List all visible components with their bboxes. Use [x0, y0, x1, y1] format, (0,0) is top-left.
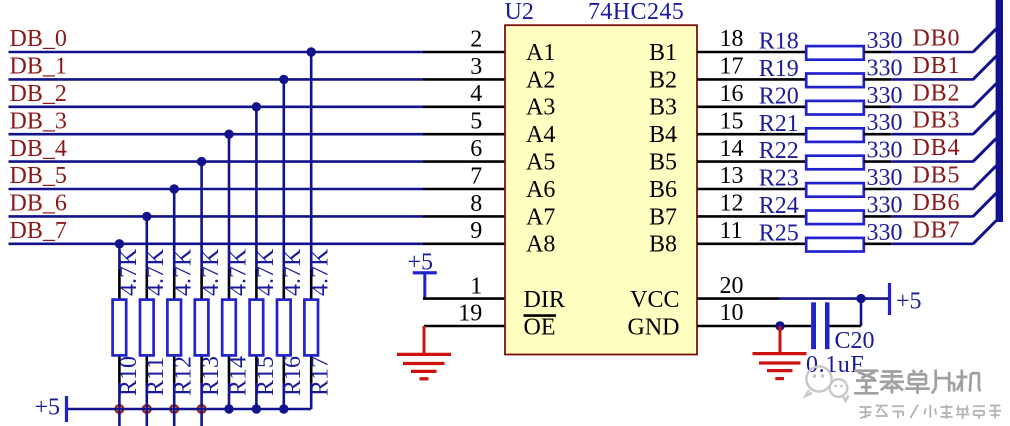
svg-text:330: 330 [867, 138, 903, 164]
svg-text:DB_1: DB_1 [10, 54, 67, 80]
svg-text:4.7K: 4.7K [253, 248, 279, 296]
svg-text:C20: C20 [835, 328, 875, 354]
svg-text:A4: A4 [526, 122, 555, 148]
svg-text:74HC245: 74HC245 [588, 0, 684, 25]
svg-text:B2: B2 [649, 67, 677, 93]
svg-text:DB_5: DB_5 [10, 163, 67, 189]
svg-text:R24: R24 [759, 193, 799, 219]
svg-text:330: 330 [867, 192, 903, 218]
svg-text:A7: A7 [526, 204, 555, 230]
svg-text:4.7K: 4.7K [143, 248, 169, 296]
svg-text:R10: R10 [116, 356, 142, 396]
svg-text:DB_0: DB_0 [10, 26, 67, 52]
svg-text:GND: GND [628, 315, 680, 341]
svg-text:330: 330 [867, 83, 903, 109]
svg-text:B7: B7 [649, 204, 677, 230]
svg-text:R25: R25 [759, 220, 799, 246]
svg-text:DB5: DB5 [913, 163, 961, 189]
svg-text:R13: R13 [198, 356, 224, 396]
svg-text:5: 5 [470, 109, 482, 135]
svg-text:DB_3: DB_3 [10, 108, 67, 134]
svg-text:R15: R15 [253, 356, 279, 396]
svg-text:R20: R20 [759, 83, 799, 109]
svg-text:19: 19 [458, 301, 482, 327]
svg-text:10: 10 [720, 300, 744, 326]
svg-text:4.7K: 4.7K [171, 248, 197, 296]
svg-text:B8: B8 [649, 232, 677, 258]
svg-text:15: 15 [720, 108, 744, 134]
svg-text:VCC: VCC [630, 287, 679, 313]
svg-text:330: 330 [867, 110, 903, 136]
svg-text:DB_4: DB_4 [10, 136, 67, 162]
svg-text:B6: B6 [649, 177, 677, 203]
svg-text:R14: R14 [225, 356, 251, 396]
svg-text:1: 1 [470, 273, 482, 299]
svg-text:DB_6: DB_6 [10, 191, 67, 217]
svg-text:DB7: DB7 [913, 217, 961, 243]
svg-text:DIR: DIR [524, 287, 565, 313]
svg-text:DB4: DB4 [913, 135, 961, 161]
svg-text:R17: R17 [308, 356, 334, 396]
svg-text:12: 12 [720, 191, 744, 217]
svg-text:R22: R22 [759, 138, 799, 164]
svg-text:7: 7 [470, 163, 482, 189]
svg-text:8: 8 [470, 191, 482, 217]
svg-text:11: 11 [720, 218, 743, 244]
svg-text:20: 20 [720, 273, 744, 299]
svg-text:18: 18 [720, 26, 744, 52]
svg-text:R18: R18 [759, 29, 799, 55]
svg-text:A6: A6 [526, 177, 555, 203]
svg-text:330: 330 [867, 165, 903, 191]
svg-text:B1: B1 [649, 40, 677, 66]
svg-text:R11: R11 [143, 357, 169, 396]
svg-text:B4: B4 [649, 122, 677, 148]
svg-text:DB_7: DB_7 [10, 218, 67, 244]
svg-text:4: 4 [470, 81, 482, 107]
svg-text:+5: +5 [35, 395, 61, 421]
svg-text:DB2: DB2 [913, 80, 961, 106]
svg-text:A5: A5 [526, 150, 555, 176]
svg-text:330: 330 [867, 55, 903, 81]
svg-text:A3: A3 [526, 95, 555, 121]
svg-text:4.7K: 4.7K [116, 248, 142, 296]
svg-text:4.7K: 4.7K [225, 248, 251, 296]
svg-text:+5: +5 [896, 288, 922, 314]
svg-text:B3: B3 [649, 95, 677, 121]
svg-text:R19: R19 [759, 56, 799, 82]
svg-text:A2: A2 [526, 67, 555, 93]
svg-text:A1: A1 [526, 40, 555, 66]
svg-text:R21: R21 [759, 111, 799, 137]
svg-text:DB1: DB1 [913, 53, 961, 79]
svg-text:3: 3 [470, 54, 482, 80]
svg-text:0.1uF: 0.1uF [806, 352, 864, 378]
svg-text:DB0: DB0 [913, 26, 961, 52]
svg-text:2: 2 [470, 26, 482, 52]
svg-text:330: 330 [867, 220, 903, 246]
svg-text:R12: R12 [171, 356, 197, 396]
svg-text:330: 330 [867, 28, 903, 54]
svg-text:A8: A8 [526, 232, 555, 258]
svg-text:R23: R23 [759, 166, 799, 192]
svg-text:DB_2: DB_2 [10, 81, 67, 107]
svg-text:DB3: DB3 [913, 108, 961, 134]
svg-text:17: 17 [720, 54, 744, 80]
svg-text:B5: B5 [649, 150, 677, 176]
svg-text:4.7K: 4.7K [280, 248, 306, 296]
svg-text:R16: R16 [280, 356, 306, 396]
svg-text:9: 9 [470, 218, 482, 244]
svg-text:13: 13 [720, 163, 744, 189]
svg-text:14: 14 [720, 136, 744, 162]
svg-text:4.7K: 4.7K [198, 248, 224, 296]
svg-text:OE: OE [524, 315, 556, 341]
svg-text:DB6: DB6 [913, 190, 961, 216]
svg-text:U2: U2 [505, 0, 534, 25]
svg-text:4.7K: 4.7K [308, 248, 334, 296]
svg-text:16: 16 [720, 81, 744, 107]
svg-text:6: 6 [470, 136, 482, 162]
